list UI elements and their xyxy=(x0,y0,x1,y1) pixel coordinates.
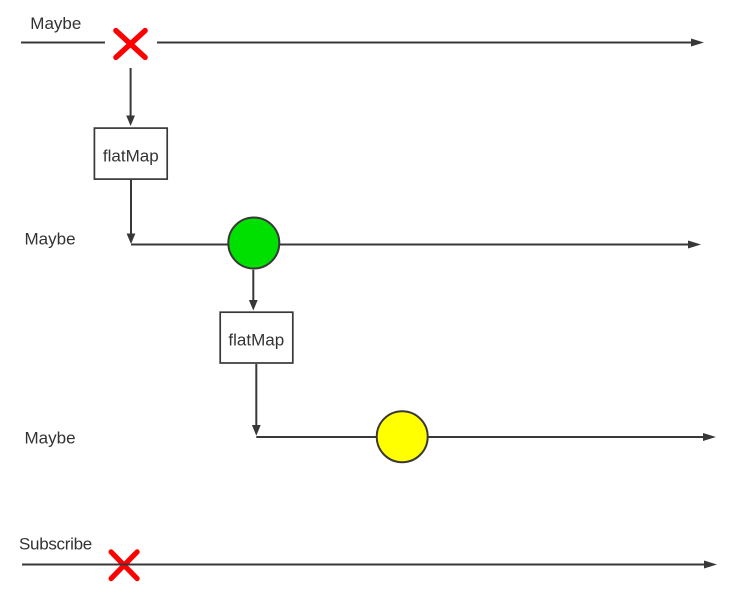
svg-text:Maybe: Maybe xyxy=(25,429,76,448)
svg-text:flatMap: flatMap xyxy=(228,330,284,349)
svg-text:Maybe: Maybe xyxy=(25,230,76,249)
svg-text:Maybe: Maybe xyxy=(30,14,81,33)
svg-text:Subscribe: Subscribe xyxy=(19,534,92,553)
svg-text:flatMap: flatMap xyxy=(103,146,159,165)
